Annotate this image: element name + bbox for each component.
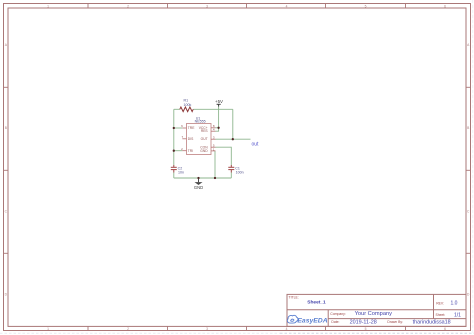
svg-text:D: D [5,293,8,297]
pin 2 number [181,147,183,151]
pin 6 number [181,124,183,128]
title block label REV: [436,301,444,305]
wire: left vertical rail [173,109,175,165]
EasyEDA logo cloud [287,315,298,323]
wire: TRE pin link to left rail [174,127,183,129]
pin 8 VCC+ stub [211,127,216,129]
label R1 value 100k [184,103,192,107]
pin name RES [201,129,209,133]
svg-text:100n: 100n [236,171,244,175]
pin name OUT [201,137,208,141]
title block value Sheet_1 [307,299,326,305]
power symbol +5V [217,104,221,106]
svg-text:Sheet:: Sheet: [436,313,446,317]
title block rev column divider [433,294,435,318]
wire: C2 bottom lead green [173,173,175,179]
pin 3 OUT stub [211,138,216,140]
svg-text:B: B [5,126,8,130]
svg-text:Sheet_1: Sheet_1 [307,299,326,305]
svg-text:Drawn By:: Drawn By: [387,320,403,324]
pin 1 number [213,147,215,151]
wire: left rail horizontal to R1 [174,108,180,110]
frame zone letters right [467,43,470,297]
svg-text:A: A [467,43,470,47]
canvas boundary dashed line bottom (left faint) [0,332,280,334]
svg-text:EasyEDA: EasyEDA [297,317,327,324]
frame zone numbers top [47,4,446,8]
label +5V [215,99,223,104]
label C2 value 10n [178,171,184,175]
svg-text:1/1: 1/1 [454,312,461,318]
title block label Company: [330,312,346,316]
ground symbol GND [198,178,200,182]
wire: RES pin bend up to VCC junction [216,128,219,131]
title block value tharindudissa18 [413,319,451,325]
svg-text:D: D [467,293,470,297]
svg-text:4: 4 [286,4,288,8]
wire: C1 bottom lead green [230,173,232,179]
canvas boundary dashed line right [472,0,474,335]
label U1 value NE555 [195,120,206,124]
junction: VCC / RES / +5V [217,127,219,129]
label R1 designator [184,99,189,103]
title block row divider 1 [287,309,466,311]
svg-text:A: A [5,43,8,47]
svg-text:10n: 10n [178,171,184,175]
svg-text:NE555: NE555 [195,120,206,124]
frame zone numbers bottom [47,327,446,331]
pin name DIS [188,137,194,141]
pin 1 GND stub [211,150,216,152]
title block value 1/1 [454,312,461,318]
label C1 designator [235,167,240,171]
svg-text:out: out [252,141,260,147]
title block label Sheet: [436,313,446,317]
ground triangle [195,182,203,185]
label C2 designator [178,167,183,171]
frame zone ticks bottom [88,326,406,330]
svg-text:Company:: Company: [330,312,346,316]
svg-text:GND: GND [194,185,203,190]
svg-text:DIS: DIS [188,137,194,141]
frame zone ticks right [466,87,471,253]
svg-text:tharindudissa18: tharindudissa18 [413,319,451,325]
pin name VCC+ [199,126,208,130]
pin 6 TRE stub [182,127,186,129]
pin 2 TRI stub [182,150,186,152]
svg-text:1: 1 [47,327,49,331]
wire: bottom ground rail [174,177,232,179]
pin name GND [200,149,208,153]
pin 5 CON stub [211,146,216,148]
svg-text:5: 5 [365,327,367,331]
title block label TITLE: [289,295,299,299]
title block label Drawn By: [387,320,403,324]
svg-text:OUT: OUT [201,137,208,141]
capacitor C2 [171,165,177,173]
net label out [252,141,260,147]
canvas boundary dashed line bottom (right) [280,332,474,334]
pin 3 number [213,136,215,140]
wire: VCC pin to +5V stem [216,127,219,129]
pin name CON [200,146,208,150]
junction: GND pin / bottom rail [214,177,216,179]
pin 5 number [213,144,215,148]
pin 8 number [213,124,215,128]
pin 4 number [213,128,215,132]
svg-text:GND: GND [200,149,208,153]
EasyEDA logo text [297,317,327,324]
title block label Date: [331,320,339,324]
svg-text:6: 6 [444,4,446,8]
svg-text:Date:: Date: [331,320,339,324]
svg-text:1.0: 1.0 [451,301,458,307]
resistor R1 [180,107,193,112]
svg-text:100k: 100k [184,103,192,107]
svg-text:Your Company: Your Company [355,311,393,317]
svg-text:C: C [5,210,8,214]
wire: +5V stem [218,107,220,128]
label GND [194,185,203,190]
svg-text:RES: RES [201,129,209,133]
op-amp / timer IC U1 NE555 body [187,124,212,155]
label C1 value 100n [236,171,244,175]
pin name TRI [188,149,193,153]
svg-text:2: 2 [181,147,183,151]
title block value Your Company [355,311,393,317]
wire: CON pin to C1 top [216,147,232,165]
pin 7 number [182,135,184,139]
svg-text:6: 6 [444,327,446,331]
wire: GND pin down to bottom rail [214,151,216,178]
svg-text:C: C [467,210,470,214]
wire: OUT to net label out [216,138,251,140]
frame zone letters left [5,43,8,297]
svg-text:1: 1 [47,4,49,8]
title block value 1.0 [451,301,458,307]
junction: OUT / feedback [232,138,234,140]
junction: TRE / left rail [173,127,175,129]
svg-text:TRI: TRI [188,149,193,153]
svg-text:3: 3 [206,327,208,331]
title block value 2019-11-28 [350,319,377,325]
wire: feedback vertical to OUT [232,109,234,139]
svg-text:+5V: +5V [215,99,223,104]
wire: R1 right lead to feedback corner [193,108,233,110]
title block outline [287,294,466,326]
title block logo cell divider [327,310,329,327]
pin 4 RES stub [211,130,216,132]
svg-text:REV:: REV: [436,301,444,305]
svg-text:5: 5 [365,4,367,8]
svg-text:2019-11-28: 2019-11-28 [350,319,377,325]
svg-text:B: B [467,126,470,130]
pin 7 DIS stub (unconnected) [182,138,186,140]
svg-text:2: 2 [127,327,129,331]
wire: TRI pin link to left rail [174,150,183,152]
capacitor C1 [228,165,234,173]
svg-text:TRE: TRE [188,126,195,130]
label U1 designator [196,116,201,120]
junction: ground symbol / bottom rail [197,177,199,179]
pin name TRE [188,126,195,130]
svg-text:4: 4 [286,327,288,331]
svg-text:3: 3 [206,4,208,8]
junction: TRI / left rail [173,150,175,152]
frame zone ticks left [4,87,9,253]
title block row divider 2 [328,318,466,320]
svg-text:TITLE:: TITLE: [289,295,299,299]
frame zone ticks top [88,4,406,9]
svg-text:2: 2 [127,4,129,8]
